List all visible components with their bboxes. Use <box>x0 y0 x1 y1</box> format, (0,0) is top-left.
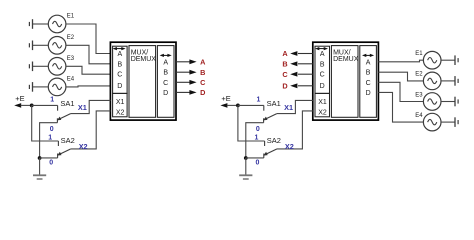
node label B (red, right circuit) <box>282 59 287 68</box>
svg-text:0: 0 <box>50 126 54 133</box>
right SA2 position label 1 <box>255 134 259 141</box>
label E2 (left circuit) <box>67 35 75 41</box>
wire left SA1 contact 1 <box>32 104 58 106</box>
node label C (red, right circuit) <box>282 70 288 79</box>
right SA1 position label 1 <box>257 96 261 103</box>
left SA1 contact-1 tick <box>57 105 59 110</box>
right SA2 contact-1 tick <box>264 141 266 146</box>
mux U2 (right) right column pin label A <box>366 59 371 66</box>
right switch SA2 lever <box>263 149 277 156</box>
mux U1 (left) right column bidirectional arrow <box>160 54 172 57</box>
left SA2 contact-1 tick <box>57 141 59 146</box>
mux U2 (right) right column pin label B <box>366 70 371 77</box>
svg-text:E1: E1 <box>415 51 423 57</box>
svg-text:D: D <box>282 81 287 90</box>
wire U1 output B with arrow <box>176 70 197 75</box>
wire +E rail down to SA2 contact 1 <box>238 105 265 141</box>
AC source E1 (right circuit) <box>423 51 441 69</box>
label E4 (left circuit) <box>67 77 75 83</box>
mux U2 (right) left column pin label B <box>320 61 325 68</box>
svg-text:B: B <box>282 59 287 68</box>
mux U2 (right) left column A-D section box <box>315 46 330 93</box>
right ground <box>239 158 252 179</box>
left switch SA2 lever <box>57 149 71 156</box>
right net label X1 <box>284 103 293 112</box>
mux U1 (left) left column pin label A <box>117 51 122 58</box>
mux U1 (left) right column pin label D <box>163 90 168 97</box>
AC source E2 (left circuit) <box>48 37 66 55</box>
svg-text:D: D <box>117 83 122 90</box>
wire U1 output A with arrow <box>176 59 197 64</box>
wire right SA2 contact 0 <box>246 157 264 159</box>
mux U2 (right) right column pin label D <box>366 90 371 97</box>
AC source E4 (left circuit) <box>48 78 66 96</box>
mux U2 (right) right column pin label C <box>366 80 371 87</box>
svg-text:A: A <box>163 59 168 66</box>
left switch SA1 lever <box>57 114 71 121</box>
ground for source E3 (right circuit) <box>441 97 458 107</box>
wire U2 output D to source E4 (right) <box>378 92 423 122</box>
wire U2 input D with arrow <box>290 83 313 88</box>
node label B (red, left circuit) <box>200 68 205 77</box>
svg-text:D: D <box>200 88 205 97</box>
svg-text:B: B <box>163 70 168 77</box>
svg-text:SA1: SA1 <box>267 99 281 108</box>
svg-text:X2: X2 <box>318 110 327 117</box>
left SA1 position label 0 <box>50 126 54 133</box>
svg-text:+E: +E <box>221 94 230 103</box>
label E3 (right circuit) <box>415 92 423 98</box>
wire U1 output D with arrow <box>176 90 197 95</box>
mux U1 (left) middle section box <box>129 46 156 118</box>
mux U2 (right) label MUX/ <box>333 49 351 56</box>
mux U2 (right) left column bidirectional arrow <box>315 47 328 50</box>
wire U1 output C with arrow <box>176 80 197 85</box>
right SA1 contact-0 tick <box>263 118 265 122</box>
svg-text:B: B <box>366 70 371 77</box>
svg-text:A: A <box>282 49 288 58</box>
mux U1 (left) right column box <box>157 46 174 118</box>
right switch label SA1 <box>267 99 281 108</box>
svg-text:1: 1 <box>255 134 259 141</box>
mux U2 (right) outer box <box>313 42 379 120</box>
mux U2 (right) left column pin label C <box>320 72 325 79</box>
mux U1 (left) left column X section box <box>113 93 128 116</box>
wire U2 input C with arrow <box>290 72 313 77</box>
svg-text:B: B <box>117 61 122 68</box>
left switch label SA1 <box>60 99 74 108</box>
svg-text:E4: E4 <box>415 113 423 119</box>
svg-text:A: A <box>366 59 371 66</box>
left +E label <box>15 94 24 103</box>
mux U2 (right) pin label X1 <box>318 99 327 106</box>
svg-text:+E: +E <box>15 94 24 103</box>
svg-text:1: 1 <box>257 96 261 103</box>
mux U1 (left) left column bidirectional arrow <box>113 47 126 50</box>
wire U2 input A with arrow <box>290 51 313 56</box>
svg-text:0: 0 <box>256 126 260 133</box>
mux U1 (left) left column pin label B <box>117 61 122 68</box>
ground for source E4 (left circuit) <box>29 82 48 92</box>
ground for source E2 (left circuit) <box>29 41 48 51</box>
AC source E4 (right circuit) <box>423 113 441 131</box>
svg-text:DEMUX: DEMUX <box>131 56 157 63</box>
wire E1 to MUX input A <box>66 24 111 54</box>
svg-text:SA2: SA2 <box>267 136 281 145</box>
wire right SA1 contact 0 to ground rail <box>246 123 264 158</box>
svg-text:DEMUX: DEMUX <box>333 56 359 63</box>
mux U1 (left) label DEMUX <box>131 56 157 63</box>
svg-text:C: C <box>366 80 371 87</box>
left SA1 position label 1 <box>50 96 54 103</box>
mux U1 (left) right column pin label C <box>163 80 168 87</box>
left node junction at ground rail <box>38 156 42 160</box>
AC source E3 (left circuit) <box>48 58 66 76</box>
svg-text:B: B <box>200 68 205 77</box>
svg-text:A: A <box>200 57 206 66</box>
svg-text:SA2: SA2 <box>61 136 75 145</box>
wire U2 output B to source E2 (right) <box>378 72 423 81</box>
right +E label <box>221 94 230 103</box>
svg-text:1: 1 <box>48 134 52 141</box>
ground for source E4 (right circuit) <box>441 117 458 127</box>
svg-text:D: D <box>320 83 325 90</box>
left SA1 contact-0 tick <box>56 118 58 122</box>
AC source E1 (left circuit) <box>48 15 66 33</box>
mux U1 (left) left column A-D section box <box>113 46 128 93</box>
wire right SA1 contact 1 <box>238 104 264 106</box>
right switch SA1 lever <box>263 114 277 121</box>
left SA2 position label 0 <box>49 159 53 166</box>
right SA2 contact-0 tick <box>263 154 265 158</box>
wire E2 to MUX input B <box>66 45 111 64</box>
label E1 (right circuit) <box>415 51 423 57</box>
mux U1 (left) outer box <box>110 42 176 120</box>
svg-text:X1: X1 <box>116 99 125 106</box>
right SA1 position label 0 <box>256 126 260 133</box>
svg-text:D: D <box>366 90 371 97</box>
svg-text:X2: X2 <box>116 110 125 117</box>
node label A (red, right circuit) <box>282 49 288 58</box>
left +E arrow <box>14 103 32 108</box>
ground for source E3 (left circuit) <box>29 62 48 72</box>
mux U2 (right) label DEMUX <box>333 56 359 63</box>
mux U2 (right) left column pin label D <box>320 83 325 90</box>
svg-text:E4: E4 <box>67 77 75 83</box>
left switch label SA2 <box>61 136 75 145</box>
svg-text:E3: E3 <box>67 56 75 62</box>
ground for source E2 (right circuit) <box>441 76 458 86</box>
left SA2 position label 1 <box>48 134 52 141</box>
left SA2 contact-0 tick <box>57 154 59 158</box>
label E3 (left circuit) <box>67 56 75 62</box>
AC source E2 (right circuit) <box>423 72 441 90</box>
left ground <box>33 158 46 179</box>
svg-text:E2: E2 <box>67 35 75 41</box>
svg-text:E2: E2 <box>415 72 423 78</box>
wire left SA1 contact 0 to ground rail <box>40 123 58 158</box>
svg-text:X2: X2 <box>79 142 88 151</box>
mux U2 (right) pin label X2 <box>318 110 327 117</box>
left net label X1 <box>78 103 87 112</box>
mux U1 (left) left column pin label D <box>117 83 122 90</box>
svg-text:B: B <box>320 61 325 68</box>
wire E3 to MUX input C <box>66 66 111 74</box>
mux U2 (right) middle section box <box>331 46 358 118</box>
right net label X2 <box>285 142 294 151</box>
svg-text:C: C <box>117 72 122 79</box>
svg-text:E3: E3 <box>415 92 423 98</box>
wire right SA2 pole to MUX X2 <box>277 111 313 149</box>
right node junction at ground rail <box>244 156 248 160</box>
mux U2 (right) left column X section box <box>315 93 330 116</box>
left node junction at +E rail <box>30 104 34 108</box>
svg-text:A: A <box>320 51 325 58</box>
wire E4 to MUX input D <box>66 86 111 87</box>
svg-text:X1: X1 <box>78 103 87 112</box>
svg-text:0: 0 <box>49 159 53 166</box>
mux U1 (left) label MUX/ <box>131 49 149 56</box>
mux U1 (left) pin label X2 <box>116 110 125 117</box>
svg-text:E1: E1 <box>67 14 75 20</box>
node label A (red, left circuit) <box>200 57 206 66</box>
left net label X2 <box>79 142 88 151</box>
wire left SA1 pole to MUX X1 <box>71 100 111 113</box>
wire U2 output A to source E1 (right) <box>378 60 423 62</box>
node label D (red, left circuit) <box>200 88 205 97</box>
label E4 (right circuit) <box>415 113 423 119</box>
svg-text:X1: X1 <box>318 99 327 106</box>
svg-text:C: C <box>163 80 168 87</box>
label E1 (left circuit) <box>67 14 75 20</box>
wire left SA2 contact 0 <box>40 157 58 159</box>
wire left SA2 pole to MUX X2 <box>71 111 111 149</box>
ground for source E1 (right circuit) <box>441 55 458 65</box>
svg-text:C: C <box>200 78 206 87</box>
node label D (red, right circuit) <box>282 81 287 90</box>
svg-text:C: C <box>282 70 288 79</box>
svg-text:A: A <box>117 51 122 58</box>
wire +E rail down to SA2 contact 1 <box>32 105 59 141</box>
mux U1 (left) left column pin label C <box>117 72 122 79</box>
mux U2 (right) right column box <box>360 46 377 118</box>
AC source E3 (right circuit) <box>423 93 441 111</box>
svg-text:C: C <box>320 72 325 79</box>
right switch label SA2 <box>267 136 281 145</box>
svg-text:SA1: SA1 <box>60 99 74 108</box>
mux U1 (left) pin label X1 <box>116 99 125 106</box>
ground for source E1 (left circuit) <box>29 19 48 29</box>
mux U2 (right) left column pin label A <box>320 51 325 58</box>
label E2 (right circuit) <box>415 72 423 78</box>
wire U2 input B with arrow <box>290 61 313 66</box>
svg-text:D: D <box>163 90 168 97</box>
right SA1 contact-1 tick <box>263 105 265 110</box>
mux U2 (right) right column bidirectional arrow <box>362 54 374 57</box>
right SA2 position label 0 <box>256 159 260 166</box>
node label C (red, left circuit) <box>200 78 206 87</box>
wire right SA1 pole to MUX X1 <box>277 100 313 113</box>
wire U2 output C to source E3 (right) <box>378 82 423 101</box>
svg-text:X1: X1 <box>284 103 293 112</box>
mux U1 (left) right column pin label B <box>163 70 168 77</box>
right +E arrow <box>220 103 238 108</box>
mux U1 (left) right column pin label A <box>163 59 168 66</box>
right node junction at +E rail <box>236 104 240 108</box>
svg-text:X2: X2 <box>285 142 294 151</box>
svg-text:0: 0 <box>256 159 260 166</box>
svg-text:1: 1 <box>50 96 54 103</box>
